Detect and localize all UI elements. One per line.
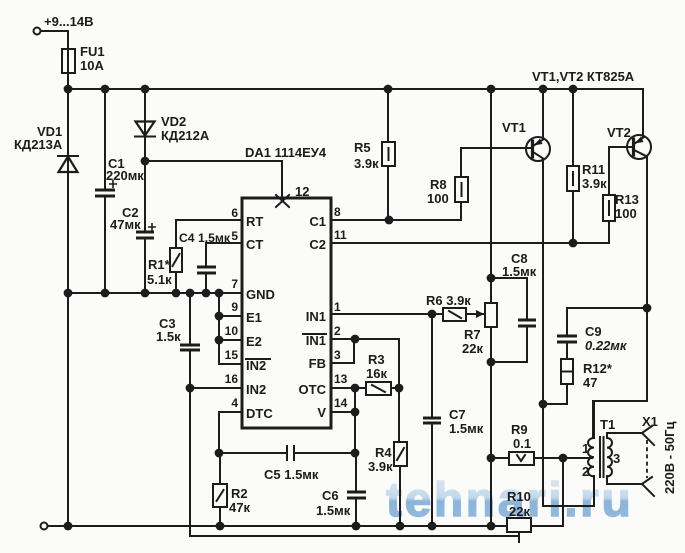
svg-text:0.1: 0.1 xyxy=(513,436,531,451)
svg-text:C6: C6 xyxy=(322,488,339,503)
svg-text:47: 47 xyxy=(583,375,597,390)
svg-text:C2: C2 xyxy=(309,237,326,252)
svg-text:1.5к: 1.5к xyxy=(156,329,181,344)
svg-text:GND: GND xyxy=(246,287,275,302)
svg-text:C5 1.5мк: C5 1.5мк xyxy=(264,467,319,482)
svg-text:11: 11 xyxy=(334,228,347,242)
svg-text:X1: X1 xyxy=(642,414,658,429)
svg-text:1.5мк: 1.5мк xyxy=(316,503,351,518)
svg-text:R3: R3 xyxy=(368,352,385,367)
svg-text:IN2: IN2 xyxy=(246,382,266,397)
svg-text:1: 1 xyxy=(334,300,341,314)
svg-text:VT1,VT2 КТ825А: VT1,VT2 КТ825А xyxy=(532,69,635,84)
svg-text:R4: R4 xyxy=(375,445,392,460)
svg-text:1.5мк: 1.5мк xyxy=(502,264,537,279)
svg-text:R9: R9 xyxy=(511,422,528,437)
svg-text:OTC: OTC xyxy=(299,382,327,397)
svg-text:5.1к: 5.1к xyxy=(147,272,172,287)
svg-text:15: 15 xyxy=(225,348,239,362)
svg-text:RT: RT xyxy=(246,214,263,229)
svg-text:R13: R13 xyxy=(615,192,639,207)
svg-text:10: 10 xyxy=(225,324,239,338)
svg-text:DA1 1114ЕУ4: DA1 1114ЕУ4 xyxy=(245,145,327,160)
svg-text:IN1: IN1 xyxy=(306,333,326,348)
svg-text:22к: 22к xyxy=(509,504,530,519)
svg-text:3: 3 xyxy=(334,348,341,362)
svg-text:14: 14 xyxy=(334,396,348,410)
svg-text:VD2: VD2 xyxy=(161,114,186,129)
svg-text:0.22мк: 0.22мк xyxy=(585,338,628,353)
svg-text:+9...14В: +9...14В xyxy=(44,14,94,29)
svg-text:16к: 16к xyxy=(366,366,387,381)
svg-text:КД213А: КД213А xyxy=(14,137,63,152)
svg-text:2: 2 xyxy=(334,324,341,338)
svg-text:VT1: VT1 xyxy=(502,120,526,135)
svg-text:47к: 47к xyxy=(229,500,250,515)
svg-text:E2: E2 xyxy=(246,334,262,349)
svg-text:7: 7 xyxy=(231,277,238,291)
svg-text:CT: CT xyxy=(246,237,263,252)
svg-text:VT2: VT2 xyxy=(607,125,631,140)
svg-text:6: 6 xyxy=(231,206,238,220)
svg-text:16: 16 xyxy=(225,372,239,386)
svg-text:3: 3 xyxy=(613,451,620,466)
svg-text:47мк: 47мк xyxy=(110,217,141,232)
svg-text:T1: T1 xyxy=(600,417,615,432)
svg-text:R8: R8 xyxy=(430,177,447,192)
svg-text:9: 9 xyxy=(231,300,238,314)
svg-text:FB: FB xyxy=(309,356,326,371)
svg-text:R1*: R1* xyxy=(148,257,171,272)
svg-text:100: 100 xyxy=(615,206,637,221)
svg-text:C9: C9 xyxy=(585,324,602,339)
svg-text:IN2: IN2 xyxy=(246,358,266,373)
svg-text:C7: C7 xyxy=(449,407,466,422)
svg-text:FU1: FU1 xyxy=(80,44,105,59)
svg-text:R7: R7 xyxy=(464,327,481,342)
svg-text:R6 3.9к: R6 3.9к xyxy=(426,293,471,308)
svg-text:E1: E1 xyxy=(246,310,262,325)
svg-text:13: 13 xyxy=(334,372,348,386)
svg-text:3.9к: 3.9к xyxy=(354,156,379,171)
svg-text:C4 1.5мк: C4 1.5мк xyxy=(179,231,231,245)
svg-text:4: 4 xyxy=(231,396,238,410)
svg-text:22к: 22к xyxy=(462,341,483,356)
svg-text:R12*: R12* xyxy=(583,361,613,376)
svg-text:100: 100 xyxy=(427,191,449,206)
svg-text:8: 8 xyxy=(334,205,341,219)
svg-text:C1: C1 xyxy=(309,214,326,229)
svg-text:R5: R5 xyxy=(354,140,371,155)
svg-text:1.5мк: 1.5мк xyxy=(449,421,484,436)
svg-text:220В - 50Гц: 220В - 50Гц xyxy=(662,422,677,494)
svg-text:10А: 10А xyxy=(80,58,104,73)
svg-text:IN1: IN1 xyxy=(306,309,326,324)
svg-text:1: 1 xyxy=(582,441,589,456)
svg-text:R10: R10 xyxy=(507,489,531,504)
svg-text:220мк: 220мк xyxy=(106,168,144,183)
svg-text:12: 12 xyxy=(295,184,309,199)
svg-text:V: V xyxy=(317,405,326,420)
svg-text:R11: R11 xyxy=(582,162,605,177)
svg-text:КД212А: КД212А xyxy=(161,128,210,143)
svg-text:2: 2 xyxy=(582,464,589,479)
svg-text:R2: R2 xyxy=(231,486,248,501)
svg-text:3.9к: 3.9к xyxy=(582,176,607,191)
svg-text:5: 5 xyxy=(231,229,238,243)
svg-text:3.9к: 3.9к xyxy=(368,459,393,474)
svg-text:DTC: DTC xyxy=(246,406,273,421)
